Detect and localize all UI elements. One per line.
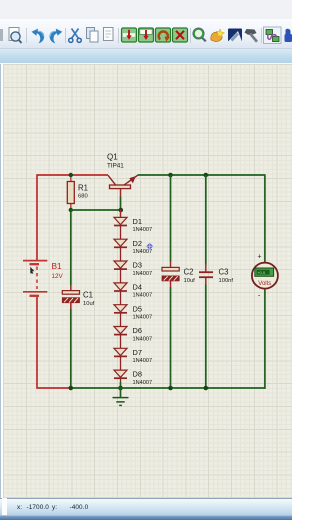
diode D3 — [114, 261, 127, 269]
svg-text:TIP41: TIP41 — [107, 162, 124, 169]
diode D4 — [114, 283, 127, 291]
svg-text:1N4007: 1N4007 — [133, 227, 153, 233]
svg-text:1N4007: 1N4007 — [133, 380, 153, 386]
wire: C3 lower lead — [205, 278, 207, 388]
transistor Q1 — [108, 175, 138, 196]
toolbar separator 5 — [261, 28, 263, 43]
svg-text:C2: C2 — [184, 268, 194, 277]
svg-text:10uf: 10uf — [83, 301, 95, 307]
node dot C3 top — [204, 173, 209, 178]
toolbar icon netlist (pressed) — [264, 27, 282, 44]
svg-text:Volts: Volts — [258, 281, 271, 287]
svg-text:12V: 12V — [52, 273, 64, 280]
svg-text:D4: D4 — [133, 283, 142, 292]
toolbar icon zoom-area — [9, 28, 22, 44]
svg-text:1N4007: 1N4007 — [133, 249, 153, 255]
wire: left red rail lower — [36, 297, 71, 389]
toolbar icon paste — [104, 28, 114, 41]
svg-text:D1: D1 — [133, 217, 142, 226]
capacitor C1 — [62, 291, 79, 303]
wire: right rail upper — [264, 174, 266, 262]
svg-text:1N4007: 1N4007 — [133, 315, 153, 321]
node dot C2 top — [168, 173, 173, 178]
node dot R1 top — [69, 173, 73, 177]
toolbar separator 4 — [190, 28, 192, 43]
svg-text:D5: D5 — [133, 304, 142, 313]
wire: C2 upper lead — [170, 175, 172, 267]
wire: Q1 base to junction — [120, 197, 122, 211]
diode D2 — [114, 239, 127, 247]
node dot diode chain bottom — [118, 386, 123, 391]
toolbar icon undo — [32, 29, 45, 44]
node dot R1 bottom — [69, 208, 73, 212]
wire: R1 bottom to diode column — [71, 209, 121, 211]
svg-text:1N4007: 1N4007 — [133, 293, 153, 299]
node dot C3 bottom — [204, 386, 209, 391]
node dot base junction — [119, 208, 124, 213]
wire: bottom green rail — [71, 387, 266, 389]
svg-text:B1: B1 — [52, 261, 63, 271]
svg-text:R1: R1 — [78, 184, 88, 193]
svg-text:D7: D7 — [133, 348, 142, 357]
svg-text:D6: D6 — [133, 326, 142, 335]
toolbar partial left icon — [0, 29, 3, 41]
toolbar icon zoom — [193, 28, 206, 42]
battery B1 — [23, 261, 47, 296]
mouse cursor arrow — [30, 267, 34, 274]
svg-text:C1: C1 — [83, 291, 93, 300]
svg-text:10uf: 10uf — [184, 278, 196, 284]
svg-text:680: 680 — [78, 194, 88, 200]
diode D8 — [114, 370, 127, 378]
toolbar separator 2 — [65, 28, 67, 43]
svg-text:100nf: 100nf — [219, 278, 234, 284]
wire: C1 bottom lead — [70, 303, 72, 388]
marker origin cursor — [146, 243, 153, 250]
svg-text:D8: D8 — [133, 370, 142, 379]
toolbar icon cut — [69, 29, 82, 43]
node dot C1 bottom — [69, 386, 74, 391]
toolbar icon goto — [211, 29, 225, 42]
toolbar partial right icon — [285, 29, 293, 42]
resistor R1 — [67, 175, 74, 210]
wire: C2 lower lead — [170, 281, 172, 388]
toolbar icon design-edit — [228, 29, 242, 42]
capacitor C3 — [199, 272, 213, 277]
wire: C1 column — [70, 210, 72, 291]
wire: top red rail from B1+ to Q1 collector — [37, 174, 108, 176]
toolbar separator 3 — [118, 28, 120, 43]
svg-text:+: + — [258, 254, 262, 261]
toolbar icon hammer — [245, 29, 258, 42]
voltmeter VM1 — [252, 263, 278, 289]
toolbar icon block-copy — [122, 28, 137, 42]
toolbar icon block-delete — [173, 28, 188, 42]
wire: diode chain spine — [120, 210, 122, 388]
diode D5 — [114, 305, 127, 313]
wire: left red rail upper — [36, 174, 38, 260]
diode D6 — [114, 327, 127, 335]
svg-text:1N4007: 1N4007 — [133, 358, 153, 364]
toolbar icon copy — [87, 28, 99, 43]
svg-text:1N4007: 1N4007 — [133, 336, 153, 342]
svg-text:1N4007: 1N4007 — [133, 271, 153, 277]
svg-text:+0.0: +0.0 — [257, 270, 266, 275]
ground — [113, 388, 129, 405]
svg-text:C3: C3 — [219, 268, 229, 277]
toolbar icon block-move — [139, 28, 154, 42]
capacitor C2 — [162, 267, 179, 281]
wire: C3 upper lead — [205, 175, 207, 272]
node dot C2 bottom — [168, 386, 173, 391]
diode D7 — [114, 348, 127, 356]
toolbar icon block-rotate — [156, 28, 171, 42]
svg-text:D2: D2 — [133, 239, 142, 248]
svg-text:Q1: Q1 — [107, 153, 118, 162]
svg-text:-: - — [258, 293, 261, 300]
toolbar icon redo — [50, 29, 63, 44]
wire: emitter rail to right — [138, 174, 265, 176]
svg-text:D3: D3 — [133, 261, 142, 270]
diode D1 — [114, 217, 127, 225]
wire: right rail lower — [264, 289, 266, 389]
toolbar separator 1 — [26, 28, 28, 43]
